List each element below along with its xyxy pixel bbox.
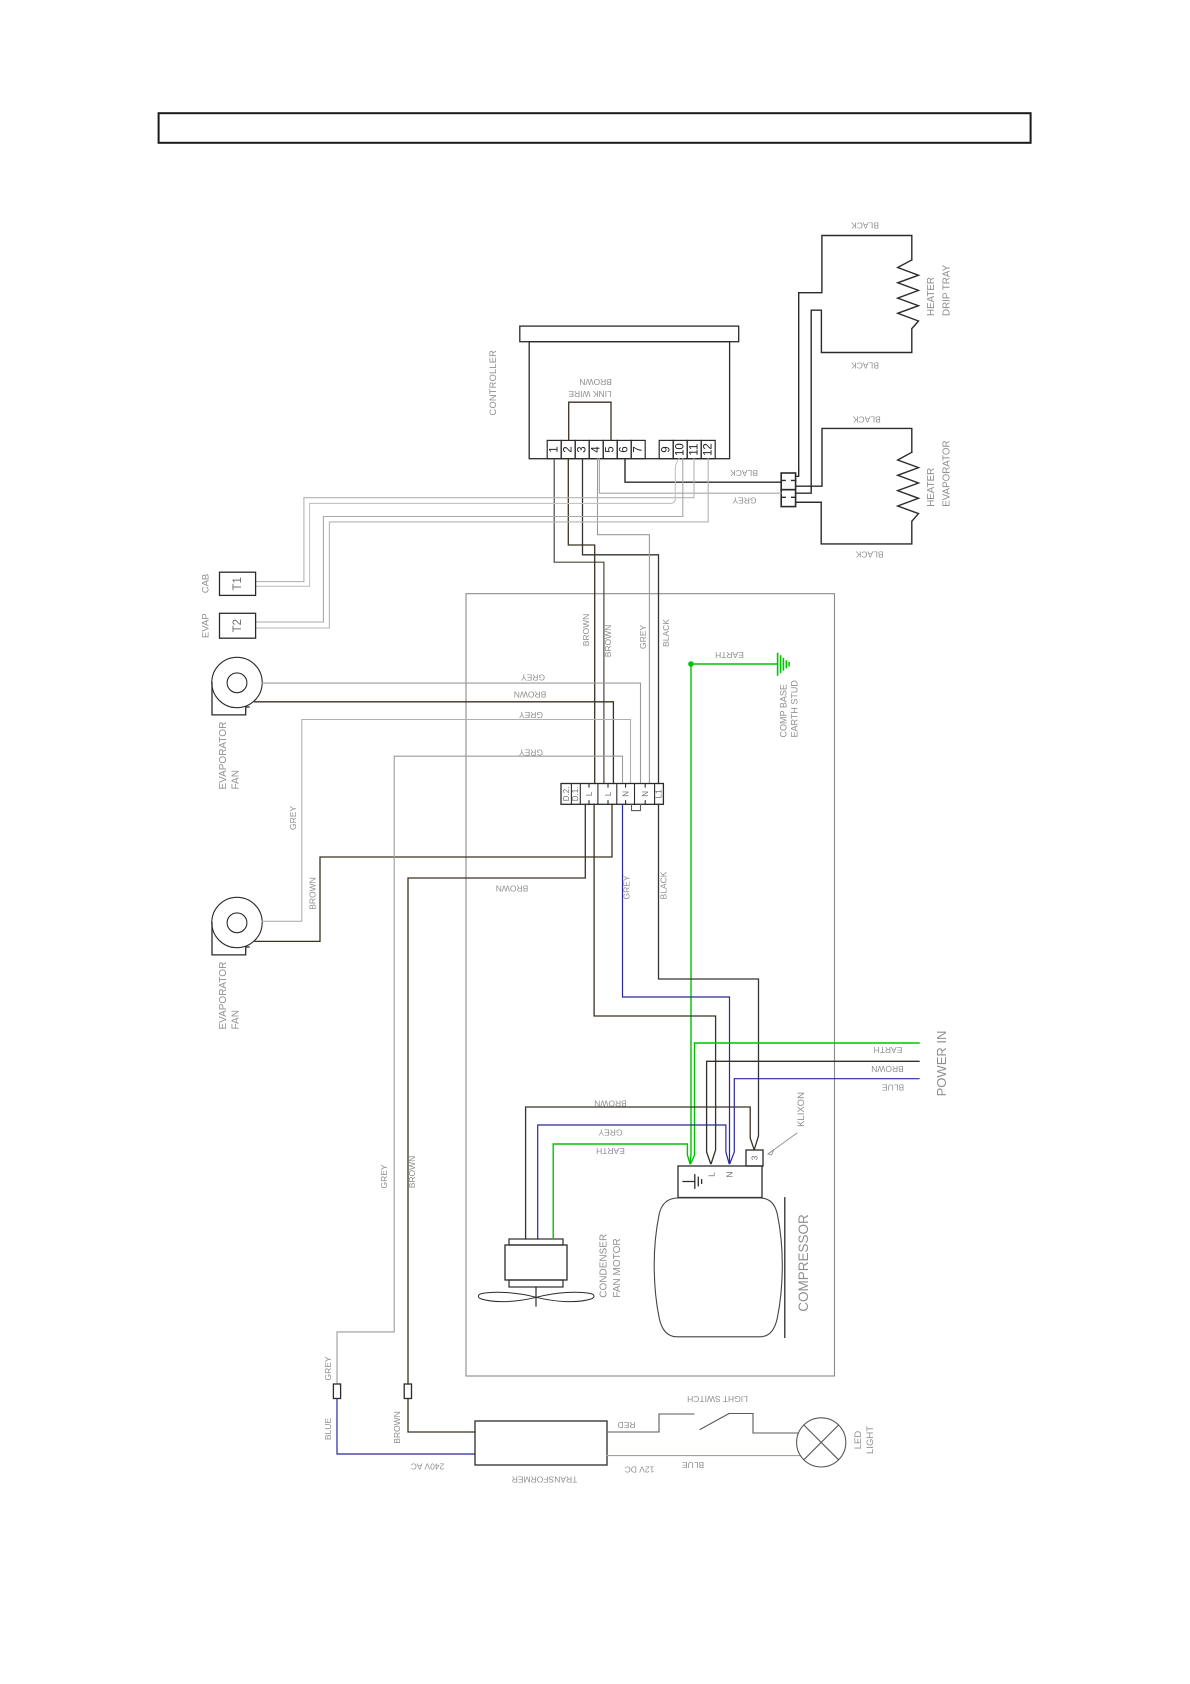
earth stud junction dot: [688, 661, 694, 667]
wire: block L1 black to klixon: [659, 804, 759, 1149]
wire: evap heater bottom lead from connector lower: [796, 501, 822, 503]
wire: terminal 10 (curved) to sensor T1: [256, 459, 679, 587]
earth stud green wire: [691, 663, 778, 665]
svg-text:COMPRESSOR: COMPRESSOR: [796, 1214, 811, 1312]
wire: block L brown down to transformer via fuse: [408, 804, 585, 1384]
klixon terminal 3 box: [746, 1150, 763, 1166]
svg-text:L: L: [585, 791, 594, 796]
heater evaporator R2 outline: [796, 428, 912, 486]
svg-text:T1: T1: [232, 577, 244, 590]
compressor earth symbol: [683, 1175, 702, 1188]
svg-text:BLACK: BLACK: [855, 550, 883, 560]
svg-text:L1: L1: [655, 789, 664, 798]
wire: earth stud green down to compressor earth: [690, 664, 691, 1164]
svg-text:10: 10: [675, 443, 687, 456]
wire: grey from transformer joining block N: [337, 756, 623, 1384]
klixon callout line: [768, 1133, 797, 1154]
heater connector lower ticks: [781, 496, 795, 498]
svg-text:LED: LED: [853, 1431, 864, 1450]
svg-text:BROWN: BROWN: [594, 1099, 627, 1109]
link wire (terminal 2 to 5): [569, 402, 611, 440]
controller U1 body: [529, 342, 729, 459]
svg-text:HEATER: HEATER: [926, 468, 937, 507]
condenser fan motor shaft: [535, 1287, 537, 1306]
svg-text:BLACK: BLACK: [661, 619, 671, 647]
heater connector upper half: [781, 473, 795, 490]
terminal numbers: [549, 443, 715, 456]
svg-text:240V AC: 240V AC: [411, 1462, 445, 1472]
svg-text:BROWN: BROWN: [871, 1064, 904, 1074]
svg-text:BLACK: BLACK: [851, 361, 879, 371]
heater connector lower half: [781, 490, 795, 507]
wire: terminal 12 to sensor T2: [256, 459, 709, 628]
svg-text:6: 6: [619, 446, 631, 452]
svg-text:GREY: GREY: [379, 1164, 389, 1188]
svg-text:GREY: GREY: [622, 875, 632, 899]
inner compartment box: [466, 594, 835, 1376]
LED light DS1 circle: [797, 1418, 846, 1467]
svg-text:EVAPORATOR: EVAPORATOR: [218, 962, 229, 1030]
svg-text:BROWN: BROWN: [514, 690, 547, 700]
svg-text:L: L: [604, 791, 613, 796]
fuse F2 (brown): [404, 1384, 411, 1399]
condenser fan propeller blade right: [536, 1292, 594, 1301]
svg-text:3: 3: [750, 1155, 760, 1160]
condenser fan propeller blade left: [478, 1292, 536, 1301]
svg-text:EARTH: EARTH: [596, 1146, 625, 1156]
condenser fan motor bottom cap: [509, 1280, 563, 1287]
svg-text:BROWN: BROWN: [308, 877, 318, 910]
sensor T2 box: [220, 613, 256, 638]
svg-text:BLACK: BLACK: [853, 415, 881, 425]
svg-text:GREY: GREY: [288, 806, 298, 830]
svg-text:N: N: [725, 1171, 735, 1177]
wire: block L brown to compressor L: [594, 804, 716, 1163]
svg-text:BLUE: BLUE: [882, 1083, 905, 1093]
svg-text:EVAP: EVAP: [201, 613, 212, 638]
svg-text:N: N: [641, 791, 650, 797]
evaporator fan M1 scroll circle: [212, 657, 262, 707]
svg-text:FAN: FAN: [231, 770, 242, 789]
svg-text:BROWN: BROWN: [496, 884, 529, 894]
svg-text:EVAPORATOR: EVAPORATOR: [942, 440, 953, 506]
wire: fan M2 brown to block L bottom: [255, 804, 612, 941]
svg-text:L: L: [707, 1172, 717, 1177]
wire: blue from fuse to transformer: [337, 1399, 475, 1455]
title block header box: [159, 113, 1031, 143]
condenser fan motor top cap: [509, 1239, 563, 1245]
power in wire BROWN: [707, 1061, 919, 1163]
wire: fan M1 brown to block L: [255, 702, 614, 784]
wire: brown fuse to transformer: [408, 1399, 475, 1433]
svg-text:CONTROLLER: CONTROLLER: [488, 350, 498, 416]
evaporator fan M2 scroll circle: [212, 897, 262, 947]
svg-text:LIGHT SWITCH: LIGHT SWITCH: [687, 1394, 748, 1404]
terminal block TB1 dividers: [571, 784, 654, 805]
svg-text:BROWN: BROWN: [581, 614, 591, 647]
svg-text:LIGHT: LIGHT: [865, 1426, 876, 1454]
wire: fan M1 grey to block N: [262, 683, 640, 783]
wire: terminal 4 grey to heater connector: [599, 459, 781, 494]
svg-text:FAN: FAN: [231, 1010, 242, 1029]
heater drip tray R1 outline: [799, 236, 912, 471]
power in wire EARTH green: [691, 1043, 919, 1164]
wire: block N grey(blue) to compressor N: [623, 804, 730, 1163]
wire: terminal 1 to block L (grey/dark): [554, 459, 604, 784]
evaporator fan M2 hub: [227, 913, 247, 933]
svg-text:11: 11: [689, 444, 701, 456]
svg-text:EARTH: EARTH: [874, 1045, 903, 1055]
klixon callout arrowhead: [768, 1150, 774, 1156]
evaporator fan M1 body: [212, 683, 249, 715]
svg-text:RED: RED: [618, 1420, 636, 1430]
svg-text:CONDENSER: CONDENSER: [599, 1234, 610, 1298]
svg-text:12V DC: 12V DC: [625, 1465, 655, 1475]
svg-text:GREY: GREY: [323, 1356, 333, 1380]
svg-text:3: 3: [577, 446, 589, 452]
svg-text:BLACK: BLACK: [851, 221, 879, 231]
controller U1 flange: [520, 326, 739, 342]
svg-text:9: 9: [661, 446, 673, 452]
svg-text:BROWN: BROWN: [407, 1156, 417, 1189]
sensor T1 box: [220, 572, 256, 595]
svg-text:GREY: GREY: [519, 748, 543, 758]
svg-text:T2: T2: [232, 619, 244, 632]
transformer T1 box: [475, 1421, 607, 1465]
wire: transformer 12V blue to LED: [607, 1455, 800, 1457]
link between N and N terminals: [632, 804, 641, 810]
svg-text:D.2.: D.2.: [562, 787, 571, 802]
evaporator fan M2 body: [212, 923, 249, 955]
wire: terminal 2 brown to block L: [568, 459, 594, 784]
svg-text:DRIP TRAY: DRIP TRAY: [942, 264, 953, 316]
svg-text:FAN MOTOR: FAN MOTOR: [612, 1238, 623, 1297]
wire: drip tray inner lead into connector lower: [796, 488, 812, 493]
wire: terminal 6 black to heater connector: [625, 459, 781, 483]
svg-text:GREY: GREY: [732, 496, 756, 506]
wire: transformer red to light switch: [607, 1414, 694, 1432]
wire: condenser fan grey(blue) to compressor N: [538, 1125, 729, 1239]
svg-text:N: N: [622, 791, 631, 797]
svg-text:GREY: GREY: [519, 710, 543, 720]
svg-text:5: 5: [605, 446, 617, 452]
svg-text:12: 12: [703, 443, 715, 456]
controller terminal strip cells 1-7, 9-12: [547, 440, 715, 458]
heater connector upper ticks: [781, 479, 795, 481]
wire: terminal 11 to sensor T1: [256, 459, 694, 582]
svg-text:POWER IN: POWER IN: [934, 1031, 949, 1097]
wire: fan M2 grey to block N: [262, 720, 630, 922]
terminal block TB1 screw ticks: [589, 784, 645, 805]
light switch right contact: [729, 1414, 799, 1434]
fuse F1 (grey/blue): [333, 1384, 340, 1399]
wire: condenser fan brown to klixon: [526, 1107, 754, 1239]
heater drip tray resistor zigzag: [811, 260, 918, 488]
svg-text:2: 2: [563, 446, 575, 452]
svg-text:EARTH: EARTH: [715, 650, 744, 660]
svg-text:1: 1: [549, 446, 561, 452]
power in wire BLUE: [730, 1079, 919, 1164]
evaporator fan M1 hub: [227, 673, 247, 693]
terminal block labels: [562, 787, 664, 802]
svg-text:BLACK: BLACK: [659, 871, 669, 899]
svg-text:4: 4: [591, 446, 603, 453]
svg-text:EVAPORATOR: EVAPORATOR: [218, 722, 229, 790]
condenser fan motor M3 body: [505, 1245, 567, 1280]
svg-text:KLIXON: KLIXON: [796, 1092, 807, 1127]
svg-text:7: 7: [633, 446, 645, 452]
svg-text:CAB: CAB: [201, 574, 212, 594]
wire: drip tray outer lead into connector top: [796, 470, 799, 476]
svg-text:GREY: GREY: [638, 625, 648, 649]
svg-text:GREY: GREY: [521, 673, 545, 683]
comp base earth stud symbol: [778, 654, 790, 676]
svg-text:LINK WIRE: LINK WIRE: [568, 389, 612, 399]
svg-text:HEATER: HEATER: [926, 277, 937, 316]
svg-text:COMP BASE: COMP BASE: [779, 684, 789, 737]
heater evaporator resistor zigzag: [796, 452, 919, 544]
svg-text:BLUE: BLUE: [682, 1460, 705, 1470]
terminal block TB1 outline: [561, 784, 663, 805]
svg-text:D.1.: D.1.: [571, 787, 580, 802]
LED light cross: [804, 1425, 839, 1460]
svg-text:BROWN: BROWN: [579, 377, 612, 387]
svg-text:BLUE: BLUE: [323, 1418, 333, 1441]
wire: terminal 4 grey to block N: [598, 459, 650, 784]
wire: terminal 10 to sensor T2: [256, 459, 683, 622]
svg-text:EARTH STUD: EARTH STUD: [790, 680, 800, 738]
svg-text:BROWN: BROWN: [603, 625, 613, 658]
wire: condenser fan earth green to compressor earth: [553, 1144, 690, 1239]
light switch SW1 blade: [700, 1414, 729, 1430]
compressor body: [654, 1198, 782, 1337]
svg-text:BROWN: BROWN: [392, 1411, 402, 1444]
svg-text:BLACK: BLACK: [730, 468, 758, 478]
svg-text:TRANSFORMER: TRANSFORMER: [512, 1475, 578, 1485]
compressor bracket line: [784, 1198, 786, 1338]
svg-text:GREY: GREY: [598, 1128, 622, 1138]
compressor terminal box: [678, 1166, 762, 1198]
wire: terminal 3 black to block L1: [583, 459, 659, 784]
